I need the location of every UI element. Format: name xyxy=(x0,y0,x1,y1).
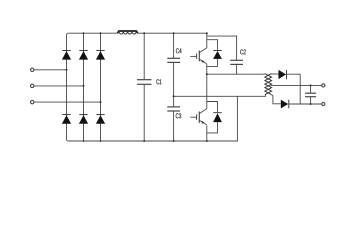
node dots xyxy=(66,32,312,142)
wire antiparallel diode loop bottom xyxy=(207,102,218,133)
output terminal minus xyxy=(322,102,325,105)
wire output bottom line xyxy=(289,103,322,105)
wire bottom DC rail xyxy=(68,96,237,141)
wire antiparallel diode loop top xyxy=(207,40,218,67)
input terminal A xyxy=(31,68,34,71)
wire midpoint line to transformer primary bottom xyxy=(174,94,266,96)
transformer T1 xyxy=(265,74,272,95)
diode D8 (antiparallel bottom) xyxy=(213,113,222,122)
wire secondary top lead xyxy=(271,73,278,75)
capacitor C4 xyxy=(167,33,180,106)
wire rectifier leg 3 xyxy=(100,33,102,141)
wire rectifier leg 1 xyxy=(67,33,69,141)
capacitor C1 xyxy=(137,33,152,141)
wire top DC rail right segment xyxy=(138,32,207,34)
label C3 xyxy=(176,113,181,118)
diode D3 (leg3 top) xyxy=(96,51,105,60)
label C4 xyxy=(176,48,181,53)
diode D4 (leg1 bottom) xyxy=(62,115,71,124)
diode D5 (leg2 bottom) xyxy=(79,115,88,124)
diode D10 (output bottom) xyxy=(281,100,289,109)
wire top DC rail left segment xyxy=(68,32,117,34)
wire input phase B xyxy=(34,85,84,87)
diode D7 (antiparallel top) xyxy=(213,51,222,59)
capacitor C5 (output) xyxy=(305,85,316,104)
wire input phase A xyxy=(34,69,67,71)
diode D2 (leg2 top) xyxy=(79,51,88,60)
diode D9 (output top) xyxy=(279,70,287,79)
diode D1 (leg1 top) xyxy=(62,51,71,60)
transistor Q1 (IGBT) xyxy=(190,48,207,64)
inductor L1 xyxy=(117,31,137,34)
wire input phase C xyxy=(34,101,101,103)
capacitor C3 xyxy=(167,107,180,141)
wire C2 top branch xyxy=(207,36,237,60)
transistor Q2 (IGBT) xyxy=(190,109,207,125)
wire output top diode to join rail xyxy=(286,74,300,104)
wire half-bridge leg xyxy=(206,33,208,141)
input terminal C xyxy=(31,100,34,103)
wire secondary bottom lead xyxy=(271,95,280,104)
diode D6 (leg3 bottom) xyxy=(96,115,105,124)
wire midpoint line to transformer primary top xyxy=(207,73,265,75)
wire rectifier leg 2 xyxy=(83,33,85,141)
label C1 xyxy=(156,79,161,84)
output terminal plus xyxy=(322,84,325,87)
label C2 xyxy=(240,49,245,54)
wire center tap output line xyxy=(271,84,322,86)
input terminal B xyxy=(31,84,34,87)
capacitor C2 xyxy=(230,60,243,74)
